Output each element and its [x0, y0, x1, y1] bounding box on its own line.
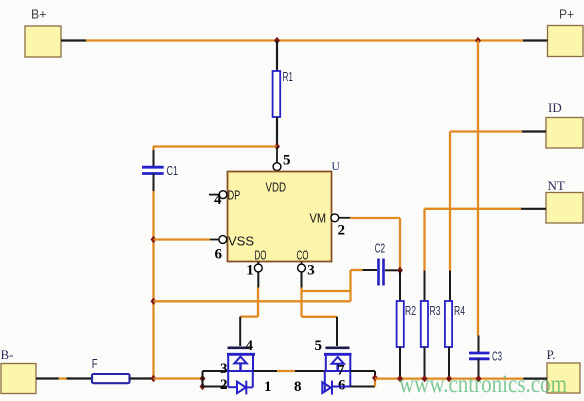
svg-text:F: F: [92, 356, 98, 371]
pin 5 stub and circle: [273, 147, 290, 171]
transistor M2 (right MOSFET, pins 5,7,6,8): [315, 338, 352, 395]
svg-text:C2: C2: [375, 241, 386, 256]
wire B- mid branch: [154, 300, 351, 302]
svg-text:3: 3: [220, 361, 228, 377]
wire DO to gate M1: [240, 272, 258, 346]
svg-text:6: 6: [215, 247, 223, 263]
svg-text:4: 4: [246, 338, 254, 354]
junction top rail / P+ vertical: [475, 37, 481, 44]
wire CO branch horizontal: [302, 290, 351, 292]
junction M1 source b: [200, 383, 206, 390]
junction VSS branch: [151, 236, 157, 243]
fuse F: [92, 356, 130, 383]
wire M2 pin7 to P- rail: [350, 371, 375, 378]
junction M1 source a: [200, 375, 206, 382]
terminal B-: [1, 347, 37, 394]
pin 1 DO: [246, 247, 266, 278]
junction R4 bottom: [446, 375, 452, 382]
wire P- bottom rail: [375, 377, 547, 379]
svg-text:8: 8: [294, 379, 302, 395]
terminal ID: [546, 100, 583, 148]
resistor R4: [445, 301, 465, 379]
svg-text:NT: NT: [548, 178, 565, 193]
junction R3 bottom: [422, 375, 428, 382]
terminal P+: [548, 7, 584, 57]
junction VM/C2/R2: [397, 267, 403, 274]
svg-text:R4: R4: [454, 303, 465, 318]
capacitor C2: [351, 241, 398, 286]
svg-text:R3: R3: [430, 303, 441, 318]
wire CO to gate M2: [302, 272, 338, 346]
wire C1 top lead: [152, 147, 154, 151]
svg-text:VM: VM: [310, 211, 327, 226]
junction C3 bottom: [476, 375, 482, 382]
svg-text:B-: B-: [1, 347, 14, 362]
svg-text:R1: R1: [283, 69, 294, 84]
terminal NT: [546, 178, 583, 223]
svg-text:www.cntronics.com: www.cntronics.com: [399, 371, 567, 398]
wire to M1 sources: [154, 377, 203, 379]
terminal P-: [547, 347, 581, 393]
wire fuse to junction: [130, 377, 153, 379]
junction mid branch: [151, 298, 157, 305]
svg-text:DO: DO: [255, 247, 267, 262]
transistor M1 (left MOSFET, pins 4,3,2,1): [203, 338, 256, 394]
op-amp U (protection IC) body: [228, 161, 341, 262]
terminal B+: [25, 7, 61, 58]
wire VDD node to C1: [153, 145, 277, 147]
junction R2 bottom: [397, 375, 403, 382]
svg-text:5: 5: [283, 153, 291, 169]
wire ID to R4: [450, 132, 546, 302]
pin 2 VM: [310, 211, 351, 239]
wire P+ vertical to C3: [477, 41, 479, 336]
resistor R1: [273, 41, 293, 147]
capacitor C1: [142, 163, 178, 178]
wire common drain pins 1,8: [253, 371, 326, 395]
wire M2 pin6: [350, 378, 375, 387]
wire C1 bottom / B- vertical: [152, 191, 154, 379]
svg-text:4: 4: [214, 192, 222, 208]
wire VM to R2: [350, 218, 400, 270]
resistor R3: [421, 301, 441, 379]
svg-text:B+: B+: [31, 7, 47, 22]
resistor R2: [397, 270, 416, 378]
svg-text:ID: ID: [548, 100, 562, 115]
wire VSS to B- vertical: [154, 238, 211, 240]
svg-text:1: 1: [246, 262, 254, 278]
svg-text:VDD: VDD: [266, 180, 287, 195]
svg-text:CO: CO: [297, 247, 309, 262]
svg-text:2: 2: [338, 223, 346, 239]
svg-text:R2: R2: [405, 303, 416, 318]
pin 3 CO: [297, 247, 315, 278]
wire C2 left vertical: [349, 270, 351, 301]
svg-text:DP: DP: [228, 188, 240, 203]
svg-text:3: 3: [307, 262, 315, 278]
junction fuse/C1 vertical: [151, 375, 157, 382]
svg-text:C1: C1: [167, 163, 179, 178]
svg-text:1: 1: [264, 379, 272, 395]
junction R1/C1 wire: [274, 143, 280, 150]
svg-text:P+: P+: [559, 7, 574, 22]
svg-text:2: 2: [220, 377, 228, 393]
junction M2 sources: [372, 374, 378, 381]
svg-text:7: 7: [337, 363, 345, 379]
pin 6 VSS: [210, 233, 254, 262]
svg-text:C3: C3: [492, 349, 502, 364]
svg-text:VSS: VSS: [228, 233, 254, 248]
svg-text:5: 5: [315, 338, 323, 354]
junction top rail / R1: [274, 37, 280, 44]
wire B+ to P+ top rail: [61, 39, 548, 41]
wire B- to fuse: [36, 377, 92, 379]
svg-text:P.: P.: [547, 347, 556, 362]
wire NT to R3: [425, 209, 547, 301]
pin 4 DP stub: [209, 188, 240, 209]
wire C1 bottom lead: [153, 174, 155, 192]
capacitor C3: [469, 349, 502, 379]
svg-text:U: U: [332, 161, 341, 173]
